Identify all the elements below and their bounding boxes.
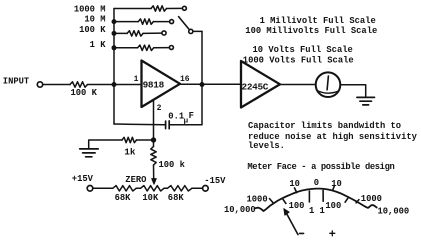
- ground right: [357, 97, 375, 105]
- svg-text:1k: 1k: [124, 147, 136, 158]
- node summing junction: [112, 82, 117, 87]
- meter M1 scale arc: [318, 91, 338, 93]
- node output junction: [200, 82, 205, 87]
- svg-text:0.1: 0.1: [168, 111, 184, 121]
- node row 1K junction: [112, 45, 117, 50]
- wire 100k to wiper: [153, 165, 155, 179]
- svg-text:10: 10: [331, 179, 342, 189]
- node inverting-network junction: [151, 137, 156, 142]
- resistor R 1k: [122, 137, 137, 142]
- svg-text:1000: 1000: [361, 194, 382, 204]
- capacitor C1 0.1uF plates: [166, 121, 170, 129]
- svg-text:1000 M: 1000 M: [74, 4, 106, 14]
- svg-text:68K: 68K: [115, 193, 132, 203]
- svg-text:0: 0: [314, 178, 319, 188]
- svg-text:10 Volts Full Scale: 10 Volts Full Scale: [253, 45, 353, 55]
- switch contact 10M: [170, 20, 174, 24]
- wire 68K to pot: [136, 187, 140, 189]
- meter face tick 100-right: [345, 198, 348, 202]
- node row 10M junction: [112, 19, 117, 24]
- wire U1 output: [180, 83, 241, 85]
- wire 1k row: [89, 140, 154, 149]
- switch S1 arm: [179, 17, 190, 30]
- meter face tick 1-right: [322, 190, 324, 201]
- svg-text:+15V: +15V: [72, 174, 94, 184]
- svg-text:68K: 68K: [168, 193, 185, 203]
- svg-text:Capacitor limits bandwidth to: Capacitor limits bandwidth to: [248, 121, 401, 131]
- meter face tick 10-left: [295, 188, 297, 193]
- svg-text:100 k: 100 k: [159, 160, 186, 170]
- wire input bus vertical: [113, 9, 115, 125]
- svg-text:10: 10: [289, 179, 300, 189]
- switch contact 1000M: [182, 6, 186, 10]
- svg-text:100: 100: [289, 201, 305, 211]
- svg-text:ZERO: ZERO: [125, 175, 146, 185]
- resistor R 68K left: [113, 186, 137, 191]
- svg-text:16: 16: [180, 75, 190, 84]
- wire resistor to summing node: [88, 84, 142, 86]
- meter M1 needle: [327, 76, 328, 90]
- wire row 1000M: [114, 7, 182, 9]
- resistor R 100 K (input): [70, 82, 88, 87]
- resistor R 1 K: [138, 45, 154, 50]
- op-amp U2 2245C: [241, 61, 280, 108]
- svg-text:10,000: 10,000: [378, 207, 410, 217]
- svg-text:1 Millivolt Full Scale: 1 Millivolt Full Scale: [260, 16, 376, 26]
- wire row 1K: [114, 47, 169, 49]
- switch contact 1K: [169, 46, 173, 50]
- svg-text:INPUT: INPUT: [3, 76, 30, 86]
- meter face tick 1000-left: [270, 199, 274, 203]
- resistor R 68K right: [167, 186, 191, 191]
- svg-text:1000: 1000: [247, 195, 268, 205]
- svg-text:1: 1: [309, 206, 314, 216]
- svg-text:2: 2: [157, 104, 162, 113]
- svg-text:levels.: levels.: [248, 141, 285, 151]
- wire pivot to feedback line: [193, 30, 202, 32]
- svg-text:1: 1: [320, 206, 325, 216]
- wire feedback vertical: [201, 31, 203, 124]
- svg-text:100 Millivolts Full Scale: 100 Millivolts Full Scale: [245, 26, 377, 36]
- meter face tick 100-left: [283, 199, 286, 203]
- resistor R 10 M: [138, 19, 153, 24]
- meter face tick 1000-right: [356, 200, 359, 203]
- wire meter to ground: [340, 85, 365, 97]
- meter face tick 10-right: [333, 186, 334, 190]
- wire 68K to -15V terminal: [192, 187, 203, 189]
- resistor R 1000 M: [151, 6, 167, 11]
- wiper arrow: [152, 179, 157, 185]
- svg-text:2245C: 2245C: [242, 81, 269, 92]
- meter face tick 1-left: [308, 191, 310, 202]
- terminal -15V: [203, 186, 209, 192]
- wire row 10M: [114, 21, 170, 23]
- potentiometer R 10K ZERO: [141, 186, 165, 191]
- wire capacitor row: [114, 123, 202, 126]
- svg-text:1: 1: [134, 75, 139, 84]
- svg-text:Meter Face - a possible design: Meter Face - a possible design: [247, 162, 394, 172]
- svg-text:10,000: 10,000: [224, 205, 256, 215]
- switch S1 pivot: [189, 29, 193, 33]
- minus sign: [300, 232, 304, 234]
- wire pot to 68K right: [164, 187, 167, 189]
- wire input to resistor: [43, 84, 70, 86]
- svg-text:1000 Volts Full Scale: 1000 Volts Full Scale: [243, 55, 354, 65]
- svg-text:F: F: [189, 111, 194, 121]
- resistor R 100 k: [151, 147, 156, 166]
- svg-text:100: 100: [325, 201, 341, 211]
- wire row 100K: [114, 32, 162, 34]
- svg-text:10 M: 10 M: [84, 15, 105, 25]
- svg-text:1 K: 1 K: [90, 40, 107, 50]
- svg-text:100 K: 100 K: [79, 25, 106, 35]
- wire pin2 down: [153, 100, 155, 141]
- svg-text:9818: 9818: [143, 79, 165, 90]
- wire 100k top lead: [153, 142, 155, 147]
- meter needle arrow shaft: [286, 212, 298, 235]
- meter M1 body: [316, 72, 341, 97]
- svg-text:-15V: -15V: [204, 176, 226, 186]
- ground left: [80, 149, 99, 157]
- svg-text:100 K: 100 K: [71, 88, 98, 98]
- meter needle arrow head: [284, 209, 289, 216]
- meter face arc: [255, 189, 377, 211]
- switch contact 100K: [162, 31, 166, 35]
- node row 100K junction: [112, 31, 117, 36]
- svg-text:10K: 10K: [142, 193, 159, 203]
- input terminal: [37, 82, 42, 87]
- wire +15V to 68K: [93, 187, 113, 189]
- terminal +15V: [87, 186, 93, 192]
- op-amp U1 9818: [142, 61, 181, 108]
- resistor R 100 K (range): [127, 31, 143, 36]
- wire U2 output to meter: [280, 84, 316, 86]
- plus sign: [330, 231, 335, 236]
